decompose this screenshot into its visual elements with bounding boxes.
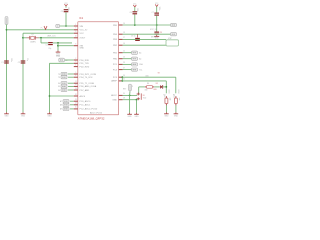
value ATMEGA168 [78,117,105,121]
svg-text:8: 8 [75,44,76,46]
pad SCK [171,23,177,26]
svg-text:VCC_IO: VCC_IO [80,30,88,32]
wire row2R [123,33,171,35]
label J2 dark [56,56,61,58]
svg-text:VCC: VCC [80,33,85,35]
pad row60 [59,58,68,62]
svg-text:S1: S1 [143,95,145,97]
svg-text:PD3_INT1_OC2B: PD3_INT1_OC2B [80,74,97,76]
wire x134.8 up [134,7,136,25]
wire R2 gnd [165,105,167,112]
svg-text:330: 330 [178,98,180,101]
svg-text:PD7_AIN1: PD7_AIN1 [80,89,91,92]
ground GND x136.5 [134,113,139,118]
svg-text:4: 4 [75,64,76,66]
svg-text:1: 1 [75,24,76,26]
pad MISO [171,33,177,36]
svg-text:27: 27 [123,67,125,69]
svg-text:S: S [132,86,133,88]
svg-text:AVR_CLK: AVR_CLK [48,35,57,38]
svg-text:LED: LED [154,89,158,91]
junction x49.5 row96 [49,95,51,97]
junction reset [129,95,131,97]
svg-text:Q1: Q1 [31,34,33,36]
wire x66 to row1 [65,12,67,26]
svg-text:MOSI: MOSI [151,37,156,39]
svg-text:16: 16 [123,43,125,45]
capacitor C1 on left rail [1,58,12,64]
svg-text:ICSP: ICSP [168,38,172,40]
pad SDA [123,63,144,66]
svg-text:A4: A4 [139,57,141,60]
svg-text:9: 9 [75,31,76,33]
svg-text:ATMEGA168_QFP32: ATMEGA168_QFP32 [78,117,105,121]
svg-text:3: 3 [75,61,76,63]
wire row1R [123,24,171,26]
IC left pin names [80,26,103,115]
svg-text:GND: GND [48,115,53,117]
svg-text:PD4_T0_XCK: PD4_T0_XCK [80,77,94,79]
svg-text:GND: GND [174,115,179,117]
svg-text:TX: TX [58,74,61,76]
svg-text:C9 1n: C9 1n [131,35,136,37]
wire capsule down [129,91,131,95]
wire row5 [58,45,74,47]
svg-text:C5: C5 [61,11,63,13]
pad SCL [123,68,143,71]
wire LED row left [139,87,145,94]
svg-text:ADC6: ADC6 [80,95,86,98]
crystal Q1 [23,34,41,43]
svg-text:GND: GND [112,100,117,102]
wire y42.9 to x72 [53,42,72,44]
pad A5 [123,51,142,54]
svg-text:19: 19 [123,23,125,25]
svg-text:PD5_T1_OC0B: PD5_T1_OC0B [80,83,95,85]
IC right pin names [111,25,117,102]
svg-text:16MHz: 16MHz [30,42,36,44]
svg-text:PC0_ADC0: PC0_ADC0 [80,100,92,103]
svg-text:5: 5 [75,72,76,74]
pad P8 [60,103,74,106]
wire rowA 77.2 [123,77,176,93]
resistor R3 [173,95,180,106]
wire row1 RESET [58,25,74,27]
svg-text:13: 13 [75,88,77,90]
supply VCC x156.7 [155,3,159,6]
capacitor C5 x66 [61,7,70,13]
wire x156.7 mid [156,16,158,32]
net label clk [48,35,57,38]
svg-text:RST: RST [123,88,126,90]
wire row4 XTAL1 [41,37,74,39]
svg-text:10: 10 [75,36,77,38]
svg-text:D1: D1 [156,83,158,85]
connector X1 green box [166,38,179,46]
wire x58 tie [57,43,59,51]
pad capsule reset [129,84,133,91]
LED D1 [160,85,163,89]
svg-text:100n: 100n [158,7,160,11]
ground GND R2 [164,112,169,117]
svg-text:LED2: LED2 [177,90,179,94]
svg-text:P+: P+ [41,27,43,29]
svg-text:ADC7_PCI12: ADC7_PCI12 [90,112,103,115]
svg-text:GND: GND [135,116,140,118]
junction crystal left [22,37,24,39]
svg-text:XOUT: XOUT [80,38,87,40]
supply VCC tap row2 [41,26,47,29]
wire jog crystal to C3 [41,38,48,43]
junction x58 row5 [57,45,59,47]
pad P2 [58,72,74,75]
ground GND x129.6 [127,113,132,118]
svg-text:PD6_AIN0_OC0A: PD6_AIN0_OC0A [80,85,97,88]
junction rowA [121,76,123,78]
svg-text:D6: D6 [58,90,60,92]
ground GND left rail [4,112,9,117]
svg-text:25: 25 [75,107,77,109]
label vert LED1 [167,90,169,94]
svg-text:7: 7 [75,28,76,30]
wire x129.6 gnd [129,95,131,112]
wire row4R [123,44,166,46]
svg-text:PC1_ADC1: PC1_ADC1 [80,104,92,107]
wire gnd trace x49.5 [49,63,51,112]
pad row1 left [56,24,60,27]
svg-text:100n: 100n [136,8,138,12]
svg-text:100n: 100n [67,7,69,11]
svg-text:R2: R2 [164,95,166,97]
pad P6 [58,88,74,91]
svg-text:TS42: TS42 [143,97,147,99]
svg-text:22: 22 [75,94,77,96]
net label mosi [151,37,156,39]
net label vcc2 [150,29,157,31]
supply VCC x134.8 [133,4,137,7]
IC left pin stubs [74,26,78,109]
svg-text:AREF: AREF [111,80,117,83]
svg-text:GND: GND [164,115,169,117]
junction D1 rail [165,86,167,88]
junction x156.7 [156,24,158,26]
switch S1 [137,93,147,101]
resistor R4 [145,86,154,89]
wire row3R [123,38,166,40]
wire row 99.7 [123,99,138,101]
label IC1 [79,17,84,20]
junction rowB [121,80,123,82]
svg-text:TX: TX [158,72,161,74]
svg-text:23: 23 [75,99,77,101]
svg-text:AVCC: AVCC [111,94,117,97]
svg-text:C3: C3 [46,44,48,46]
svg-text:GND: GND [80,47,85,49]
svg-text:D5: D5 [58,86,60,88]
label vert LED2 [177,90,179,94]
wire tie x122.3 [121,77,123,81]
svg-text:PD0_RXD: PD0_RXD [80,60,90,62]
svg-text:2: 2 [75,58,76,60]
svg-text:PD1_TXD: PD1_TXD [80,63,90,65]
svg-text:C8: C8 [160,32,162,34]
svg-text:330: 330 [145,89,148,91]
svg-text:11: 11 [75,81,77,83]
wire XTAL rail x23 [22,33,24,112]
resistor R2 [163,95,170,106]
IC left pin numbers [75,24,77,109]
junction row1 x66 [65,25,67,27]
svg-text:GND: GND [21,115,26,117]
junction crystal right [40,37,42,39]
wire row96 [50,95,74,97]
svg-text:VCC_IO: VCC_IO [150,29,157,31]
junction x136.5 [136,99,138,101]
svg-text:R4: R4 [147,83,149,85]
svg-text:C1: C1 [1,62,3,64]
svg-text:R3: R3 [173,95,175,97]
IC1 ATMEGA box [78,22,119,115]
svg-text:330: 330 [169,98,171,101]
svg-text:PD2_INT0: PD2_INT0 [80,66,91,68]
supply +5V arrow P1 [5,17,8,25]
svg-text:PC2_ADC2_PCI10: PC2_ADC2_PCI10 [80,108,99,111]
capacitor C6 [129,8,138,14]
wire AVCC row2 [7,29,74,31]
svg-text:6: 6 [75,75,76,77]
ground GND x23 rail [21,112,26,117]
IC right pin stubs [119,25,123,100]
wire row 95.4 [123,94,138,96]
svg-text:GND: GND [56,56,61,58]
svg-text:SCL: SCL [139,69,142,71]
svg-text:C2: C2 [18,62,20,64]
svg-text:TX: TX [58,77,61,79]
wire x156.7 up [156,7,158,13]
svg-text:D4: D4 [58,83,60,85]
svg-text:15: 15 [123,51,125,53]
svg-text:14: 14 [123,57,125,59]
svg-text:17: 17 [123,37,125,39]
pad P7 [60,100,74,103]
svg-text:18: 18 [123,32,125,34]
wire rowB 80.9 [123,81,167,93]
svg-text:18: 18 [123,98,125,100]
svg-text:26: 26 [123,75,125,77]
wire row3 XTAL2 [23,32,74,34]
svg-text:100n: 100n [10,58,12,62]
wire row60 [65,59,74,61]
svg-text:24: 24 [75,103,77,105]
pad A4 [123,57,142,60]
ground GND x49.5 [47,112,52,117]
label rst [123,88,126,90]
svg-text:IC1: IC1 [79,17,84,20]
capacitor C8 [154,32,161,35]
svg-text:A7: A7 [60,100,62,103]
junction x58 upper [57,42,59,44]
label TX RX red [146,72,161,77]
ground GND x58 [56,51,61,56]
svg-text:28: 28 [123,62,125,64]
IC right pin numbers [123,23,125,100]
svg-text:GND: GND [5,115,10,117]
svg-text:A9: A9 [60,108,62,111]
wire left VCC rail [6,25,8,113]
capacitor C9 [131,34,140,41]
pad P4 [58,82,74,85]
svg-text:A8: A8 [60,104,62,107]
svg-text:VIN: VIN [80,26,84,28]
capacitor C3 [46,42,53,50]
svg-text:21: 21 [123,79,125,81]
wire D1 to vrail [163,86,167,88]
ground GND R3 [174,112,179,117]
svg-text:20: 20 [123,93,125,95]
wire x136.5 gnd [136,100,138,113]
svg-text:C6: C6 [129,12,131,14]
capacitor C2 on x23 rail [18,58,28,64]
wire R4-D1 [154,86,160,88]
supply VCC x66 [64,3,68,6]
svg-text:12: 12 [75,84,77,86]
ground GND x156.7 small [154,35,159,40]
svg-text:22p: 22p [26,58,28,61]
pad P3 [58,76,74,79]
junction left rail row2 [6,29,8,31]
svg-text:22p: 22p [48,48,51,50]
svg-text:A5: A5 [139,51,141,54]
pad P9 [60,107,74,110]
junction x134.8 [134,24,136,26]
capacitor C7 [152,7,160,16]
svg-text:SDA: SDA [139,63,143,66]
pad P5 [58,85,74,88]
svg-text:LED1: LED1 [167,90,169,94]
wire R3 gnd [175,105,177,112]
svg-text:C7: C7 [152,12,154,14]
wire x66 top [65,6,67,8]
label R4 [145,83,158,92]
svg-text:GND: GND [128,116,133,118]
wire row 63.3 [50,62,74,64]
